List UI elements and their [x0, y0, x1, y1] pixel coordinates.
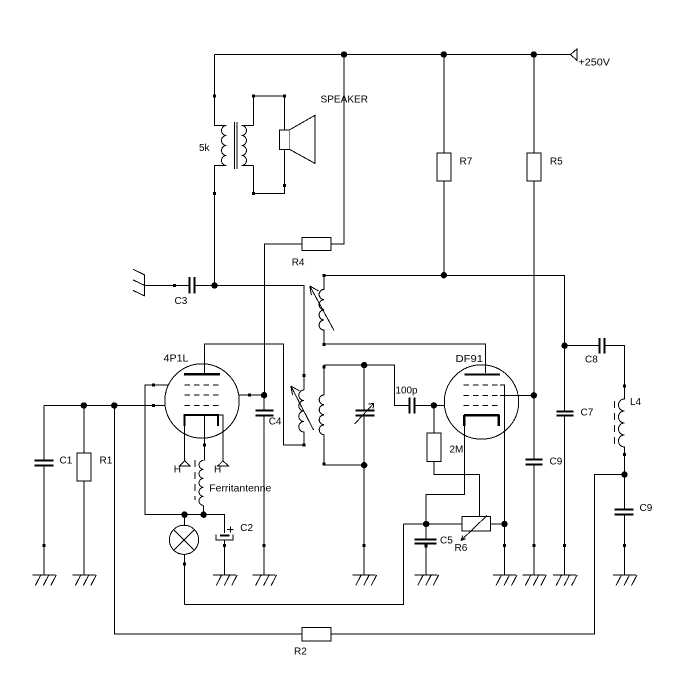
wire 4P1L plate to variometer2 bottom — [205, 344, 305, 445]
wire DF91 filament to C5 — [426, 426, 464, 524]
svg-text:C4: C4 — [269, 417, 282, 428]
speaker SPEAKER — [280, 94, 369, 186]
transformer secondary — [242, 94, 256, 195]
node rail-R4 — [341, 51, 347, 57]
node L4 bottom — [621, 471, 627, 477]
wire DF91 plate to variometer1 — [324, 344, 485, 373]
svg-text:C8: C8 — [585, 355, 598, 366]
resistor R2 — [294, 475, 625, 658]
transformer 5k primary — [199, 55, 227, 286]
wire g1 ground pin — [503, 544, 506, 547]
wire tank bottom rail — [324, 464, 364, 466]
resistor R4 — [264, 55, 344, 396]
node R6 right — [501, 521, 507, 527]
svg-text:C5: C5 — [440, 536, 453, 547]
wire lamp to R6 — [184, 524, 403, 605]
wire 4P1L grid3 to C1/R1 rail — [44, 404, 165, 407]
svg-text:2M: 2M — [450, 445, 464, 456]
svg-text:R6: R6 — [455, 543, 468, 554]
wire 4P1L filament legs — [185, 415, 223, 461]
svg-text:L4: L4 — [630, 397, 642, 408]
svg-text:C2: C2 — [240, 523, 253, 534]
svg-text:C7: C7 — [581, 408, 594, 419]
node grid junction DF91 — [431, 402, 437, 408]
svg-text:C1: C1 — [60, 456, 73, 467]
wire R4/g2/C4 node — [261, 392, 267, 398]
svg-text:R7: R7 — [460, 157, 473, 168]
wire 4P1L grid1 loop — [145, 384, 185, 515]
svg-text:5k: 5k — [199, 143, 211, 154]
node antenna coil junction — [200, 512, 206, 518]
ground R1 — [72, 575, 96, 586]
svg-text:R5: R5 — [550, 157, 563, 168]
ground C4 — [253, 575, 277, 586]
svg-text:Ferritantenne: Ferritantenne — [209, 484, 271, 495]
svg-text:R2: R2 — [294, 647, 307, 658]
node R6 left — [423, 521, 429, 527]
node C3-transformer junction — [211, 282, 217, 288]
tube DF91 — [444, 354, 518, 439]
inductor tank coil — [319, 365, 326, 465]
ground C5 — [415, 575, 439, 586]
antenna symbol — [133, 269, 145, 296]
terminal H left — [174, 461, 190, 476]
transformer core — [235, 122, 237, 169]
capacitor C2 — [216, 523, 254, 575]
variometer L2 arrow coil — [291, 374, 314, 447]
node lamp junction — [181, 512, 187, 518]
resistor R7 — [437, 55, 473, 276]
svg-text:100p: 100p — [396, 385, 418, 396]
svg-text:C9: C9 — [550, 457, 563, 468]
wire +250V supply rail — [215, 54, 571, 56]
wire antenna to C3 — [145, 285, 190, 287]
inductor Ferritantenne — [195, 460, 272, 515]
svg-text:+250V: +250V — [579, 58, 611, 69]
wire filament junction row — [145, 515, 225, 533]
inductor L4 — [615, 384, 642, 474]
capacitor C1 — [35, 406, 73, 576]
wire secondary to speaker top — [254, 96, 285, 130]
wire grid rail to variometer — [215, 286, 305, 391]
ground C9b — [613, 575, 637, 586]
wire DF91 g2 to R5 — [500, 394, 534, 396]
capacitor C9 output — [615, 475, 653, 575]
ground C7 — [553, 575, 577, 586]
svg-text:DF91: DF91 — [456, 354, 484, 365]
capacitor C4 — [256, 395, 282, 575]
ground C2 — [213, 575, 237, 586]
wire tank top rail — [324, 365, 409, 405]
svg-text:C3: C3 — [175, 296, 188, 307]
svg-text:H: H — [174, 465, 181, 476]
svg-text:R1: R1 — [100, 456, 113, 467]
resistor R1 — [77, 406, 113, 576]
wire AGC line to R2 — [114, 406, 302, 635]
wire 4P1L grid2 to C4 — [239, 394, 264, 397]
node R7 bottom — [441, 272, 447, 278]
wire secondary to speaker bottom — [254, 149, 285, 193]
svg-text:R4: R4 — [292, 258, 305, 269]
node tank bottom — [361, 462, 367, 468]
ground C9a — [522, 575, 546, 586]
ground C1 — [32, 575, 56, 586]
node C7/C8 junction — [561, 343, 567, 349]
lamp — [169, 515, 198, 605]
svg-text:C9: C9 — [640, 503, 653, 514]
node rail-R5 — [531, 51, 537, 57]
node tank top — [361, 362, 367, 368]
capacitor C8 — [565, 338, 625, 386]
capacitor C9 screen bypass — [526, 395, 563, 575]
capacitor C3 — [175, 277, 215, 307]
terminal H right — [214, 461, 229, 476]
svg-text:H: H — [214, 465, 221, 476]
variable capacitor — [355, 365, 375, 575]
capacitor C7 — [557, 346, 594, 575]
capacitor 100p — [396, 385, 445, 413]
tube 4P1L — [164, 353, 240, 438]
ground tank — [353, 575, 377, 586]
resistor R5 — [527, 55, 563, 396]
variometer L1 arrow coil — [310, 274, 334, 346]
node R1 top — [81, 402, 87, 408]
+250V terminal — [571, 49, 611, 69]
wire anode rail A — [324, 275, 564, 345]
node g2-R5 — [531, 392, 537, 398]
capacitor C5 — [415, 524, 454, 575]
potentiometer R6 — [403, 516, 504, 555]
node rail-R7 — [441, 51, 447, 57]
ground g1 — [493, 575, 517, 586]
svg-text:4P1L: 4P1L — [164, 353, 189, 364]
node AGC rail top — [111, 402, 117, 408]
wire DF91 g1 to ground — [500, 385, 505, 575]
resistor 2M — [427, 405, 480, 516]
